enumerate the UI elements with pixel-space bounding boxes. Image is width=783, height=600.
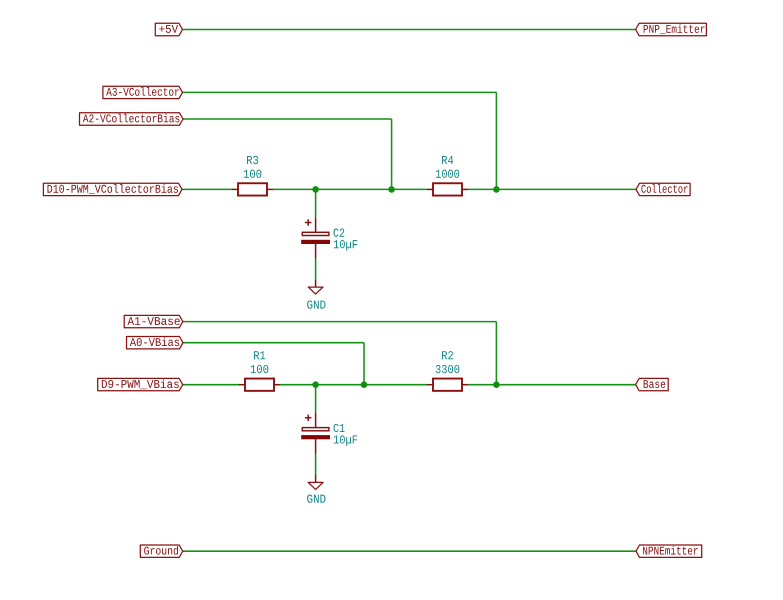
- global label Collector: [636, 183, 690, 195]
- wire R4 to Collector label: [468, 188, 636, 190]
- GND net name: [307, 495, 325, 503]
- wire A3-VCollector vertical drop: [495, 92, 497, 189]
- resistor R1: [239, 379, 280, 391]
- junction A3 drop: [493, 186, 500, 193]
- wire A1-VBase vertical drop: [495, 322, 497, 385]
- wire A0-VBias horizontal: [183, 342, 364, 344]
- wire A1-VBase horizontal: [183, 321, 497, 323]
- global label A2-VCollectorBias: [80, 113, 184, 125]
- global label +5V: [155, 23, 182, 35]
- ground symbol upper: [308, 280, 323, 295]
- resistor R3: [232, 183, 273, 195]
- C2 reference label: [334, 229, 345, 237]
- junction R3/C2 node: [312, 186, 319, 193]
- wire Ground to NPNEmitter: [183, 550, 636, 552]
- global label A0-VBias: [127, 337, 184, 349]
- R1 reference label: [254, 351, 265, 359]
- wire D9 label to R1: [183, 384, 239, 386]
- wire +5V to PNP_Emitter: [183, 29, 636, 31]
- junction A0 drop: [361, 381, 368, 388]
- R4 value 1000: [436, 170, 459, 178]
- wire junction to C2: [315, 189, 317, 217]
- global label Base: [636, 378, 669, 390]
- capacitor C2: [302, 217, 330, 258]
- ground symbol lower: [308, 475, 323, 490]
- C1 value 10µF: [334, 435, 358, 446]
- wire C1 to GND: [315, 454, 317, 475]
- wire R2 to Base label: [468, 384, 636, 386]
- resistor R4: [427, 183, 468, 195]
- R4 reference label: [442, 156, 453, 164]
- R1 value 100: [251, 365, 269, 373]
- global label A3-VCollector: [103, 86, 183, 98]
- junction A1 drop: [493, 381, 500, 388]
- global label Ground: [140, 545, 182, 557]
- resistor R2: [427, 379, 468, 391]
- wire junction to C1: [315, 385, 317, 413]
- junction R1/C1 node: [312, 381, 319, 388]
- capacitor C1: [302, 413, 330, 454]
- wire C2 to GND: [315, 258, 317, 279]
- C2 value 10µF: [334, 240, 358, 251]
- global label A1-VBase: [124, 315, 183, 327]
- R3 value 100: [244, 170, 262, 178]
- global label D10-PWM_VCollectorBias: [43, 183, 182, 195]
- wire R3 to R4: [273, 188, 427, 190]
- GND net name: [307, 300, 325, 308]
- wire A2-VCollectorBias vertical drop: [391, 119, 393, 189]
- wire A0-VBias vertical drop: [363, 343, 365, 385]
- global label PNP_Emitter: [636, 23, 707, 35]
- R3 reference label: [247, 156, 258, 164]
- global label NPNEmitter: [636, 545, 702, 557]
- R2 value 3300: [436, 365, 460, 373]
- junction A2 drop: [388, 186, 395, 193]
- R2 reference label: [442, 351, 453, 359]
- wire R1 to R2: [280, 384, 427, 386]
- wire A3-VCollector horizontal: [183, 91, 497, 93]
- global label D9-PWM_VBias: [98, 378, 183, 390]
- wire D10 label to R3: [182, 188, 232, 190]
- C1 reference label: [334, 424, 345, 432]
- wire A2-VCollectorBias horizontal: [183, 118, 392, 120]
